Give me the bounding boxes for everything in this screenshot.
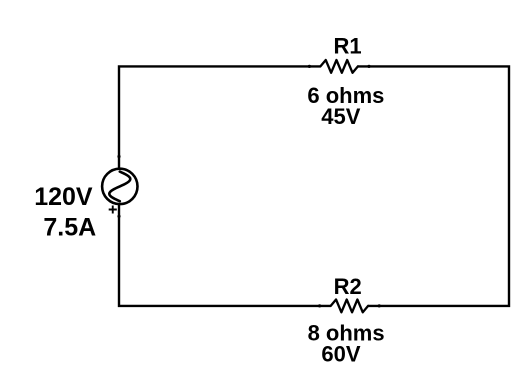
pin dot R1 left bbox=[308, 65, 311, 68]
svg-text:R2: R2 bbox=[334, 274, 362, 299]
resistor R2 bbox=[331, 300, 368, 313]
pin dot R2 left bbox=[318, 304, 321, 307]
svg-text:60V: 60V bbox=[321, 341, 360, 366]
wire left-upper + top-left bbox=[119, 66, 320, 169]
pin dot R2 right bbox=[378, 304, 381, 307]
resistor R1 bbox=[320, 60, 358, 73]
svg-text:7.5A: 7.5A bbox=[43, 214, 96, 242]
pin dot source bottom bbox=[117, 215, 120, 218]
pin dot R1 right bbox=[367, 65, 370, 68]
AC source V1 circle bbox=[102, 169, 137, 204]
wire top-right + right + bottom-right bbox=[358, 66, 509, 306]
wire bottom-left + left-lower bbox=[119, 204, 331, 306]
svg-text:R1: R1 bbox=[334, 33, 362, 58]
svg-text:120V: 120V bbox=[34, 183, 93, 211]
svg-text:45V: 45V bbox=[321, 104, 360, 129]
polarity plus sign bbox=[109, 206, 117, 214]
pin dot source top bbox=[117, 155, 120, 158]
AC source sine wave bbox=[109, 172, 130, 202]
